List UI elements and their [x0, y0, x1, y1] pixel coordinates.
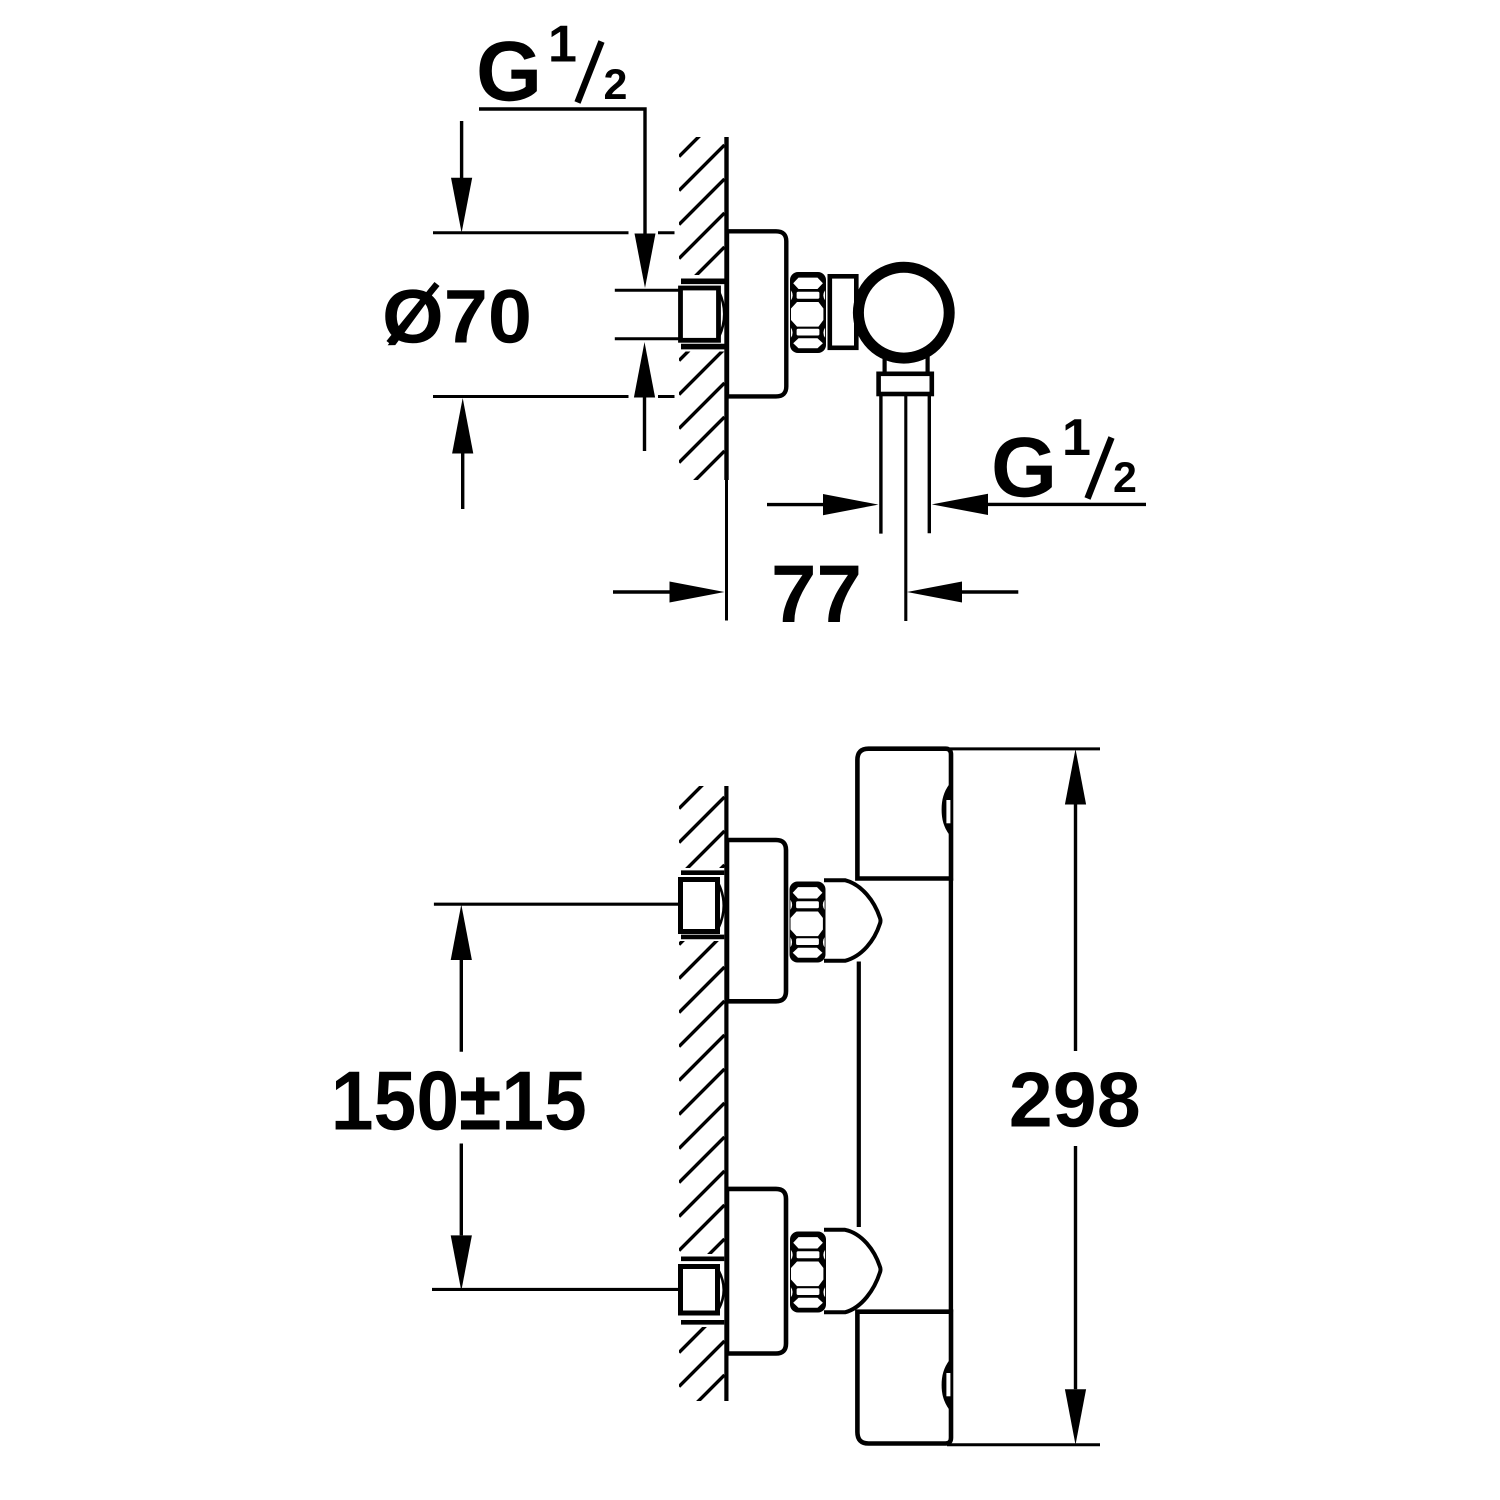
- escutcheon rosette (side view): [727, 231, 786, 396]
- Ø70 arrow down: [460, 121, 463, 178]
- hex union nut (side view): [790, 272, 826, 353]
- hose thread arrow right-side (points left): [932, 494, 988, 515]
- 77 dimension arrow to hose centre (points left): [907, 582, 962, 603]
- upper escutcheon rosette: [727, 840, 786, 1001]
- hose thread arrow left-side (points right): [767, 503, 823, 506]
- wall surface extension line (thin, for 77 dim): [725, 480, 728, 621]
- wall hatching (top view): [679, 111, 725, 565]
- G1/2 leader line: [479, 109, 645, 234]
- 150±15 dimension line with arrows: [451, 905, 472, 961]
- body top cap: [857, 749, 951, 879]
- outlet flange: [879, 374, 932, 394]
- label G 1/2 (top, inlet thread): [476, 16, 627, 120]
- 298 dimension line with arrows: [1065, 749, 1086, 805]
- Ø70 lower extension line (escutcheon bottom): [433, 395, 629, 398]
- label G 1/2 (right, hose thread): [991, 409, 1137, 516]
- Ø70 upper extension line (escutcheon top): [433, 231, 629, 234]
- svg-text:Ø70: Ø70: [382, 275, 532, 360]
- body middle section right edge: [949, 879, 953, 1312]
- Ø70 arrow up: [452, 398, 473, 454]
- lower escutcheon rosette: [727, 1189, 786, 1354]
- square nut chamfer arc: [719, 292, 724, 338]
- valve inlet collar: [830, 276, 857, 348]
- G1/2 arrow up to pipe bottom: [634, 342, 655, 398]
- union sleeve bar above square nut: [681, 278, 725, 284]
- 77 dimension arrow to wall (points right): [613, 590, 670, 593]
- svg-text:2: 2: [604, 61, 628, 109]
- 150±15 lower extension line: [432, 1288, 680, 1291]
- 298 top extension line: [950, 747, 1100, 750]
- body middle section left edge: [857, 962, 861, 1228]
- upper union sleeve bars: [681, 870, 724, 875]
- svg-text:G: G: [476, 25, 542, 120]
- hatch clearing around lower union: [677, 1254, 726, 1327]
- svg-text:2: 2: [1113, 454, 1137, 502]
- union sleeve bar below square nut: [681, 344, 725, 350]
- bottom side-screw notch: [942, 1360, 950, 1410]
- body bottom cap: [857, 1312, 951, 1444]
- svg-text:298: 298: [1009, 1056, 1141, 1144]
- svg-text:150±15: 150±15: [331, 1054, 587, 1148]
- shower hose outlet (G1/2 thread): [879, 394, 882, 534]
- 298 bottom extension line: [947, 1443, 1100, 1446]
- svg-text:G: G: [991, 421, 1057, 516]
- upper inlet cone: [824, 880, 881, 961]
- inlet pipe stub in wall: [615, 289, 681, 292]
- svg-text:77: 77: [771, 549, 862, 640]
- hatch clearing around upper union: [677, 868, 726, 941]
- thermostat knob (side view circle): [858, 267, 949, 358]
- wall hatching (bottom view): [679, 763, 725, 1455]
- top side-screw notch: [942, 784, 950, 835]
- 150±15 upper extension line: [434, 903, 680, 906]
- lower square wall-nut: [681, 1267, 718, 1314]
- outlet neck below knob: [882, 351, 886, 375]
- svg-text:1: 1: [1062, 409, 1091, 467]
- G1/2 arrow down to pipe top: [635, 234, 656, 289]
- upper hex union nut (front): [790, 882, 826, 963]
- square wall-nut (side view): [681, 288, 719, 340]
- svg-text:1: 1: [548, 16, 577, 74]
- hose centre extension line: [904, 394, 907, 621]
- wall surface line (bottom view): [724, 786, 728, 1401]
- lower inlet cone: [824, 1230, 881, 1313]
- upper square wall-nut: [681, 880, 718, 932]
- lower union sleeve bars: [681, 1257, 724, 1262]
- hatch clearing around inlet pipe: [677, 275, 725, 352]
- lower hex union nut (front): [790, 1232, 826, 1313]
- wall surface line (thick): [724, 137, 728, 480]
